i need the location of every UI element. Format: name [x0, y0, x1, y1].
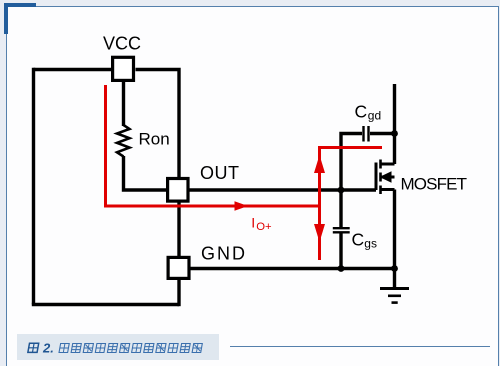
wire: GND box right to source node	[191, 267, 395, 270]
red arrowhead down toward Cgs	[314, 224, 325, 242]
junction dot source on ground wire	[391, 265, 398, 272]
junction dot Cgs bottom on ground wire	[338, 265, 345, 272]
wire: gate wire from OUT box to MOSFET gate	[190, 188, 377, 191]
label Ron	[139, 130, 170, 149]
red wire: gate node vertical	[318, 146, 321, 260]
svg-text:2.: 2.	[42, 340, 54, 355]
red wire: charge current IO+ horizontal	[104, 205, 320, 208]
OUT pin box	[168, 179, 188, 202]
label IO+	[251, 215, 272, 233]
resistor Ron	[117, 125, 130, 157]
ground	[380, 269, 409, 303]
capacitor Cgd	[364, 126, 369, 142]
red arrowhead up toward Cgd	[314, 155, 325, 173]
wire: Cgd right lead to drain	[370, 132, 395, 135]
label Cgd	[355, 101, 382, 122]
red arrowhead right on IO+ wire	[235, 201, 249, 210]
wire: GND box bottom stub	[177, 280, 180, 306]
figure caption bar	[17, 334, 219, 360]
wire: OUT box bottom to GND box top	[177, 203, 180, 257]
wire: gate branch up to Cgd left plate	[341, 134, 362, 228]
wire: Ron bottom lead to OUT box left	[124, 156, 167, 190]
red wire: top horizontal toward Cgd	[320, 146, 383, 149]
wire: drain stub up	[393, 84, 396, 164]
VCC pin box	[113, 57, 134, 80]
capacitor Cgs	[333, 228, 350, 232]
wire: left rail down	[32, 68, 35, 305]
red wire: from VCC down along Ron	[106, 85, 108, 206]
wire: Ron top lead	[122, 82, 125, 126]
wire: Cgs bottom lead	[339, 233, 342, 269]
wire: VCC box right over to OUT box top	[136, 70, 180, 178]
label Cgs	[352, 230, 377, 251]
junction dot gate wire / Cgd-Cgs branch	[338, 187, 345, 194]
wire: bottom rail	[32, 303, 179, 306]
label GND	[201, 244, 245, 264]
label MOSFET	[401, 175, 468, 194]
label OUT	[200, 163, 239, 183]
label VCC	[103, 34, 141, 54]
wire: VCC box left to left rail	[34, 68, 112, 71]
junction dot at Cgd/drain	[391, 130, 398, 137]
GND pin box	[168, 257, 189, 278]
transistor Q1 MOSFET	[376, 160, 395, 195]
wire: source down to ground node	[393, 190, 396, 269]
